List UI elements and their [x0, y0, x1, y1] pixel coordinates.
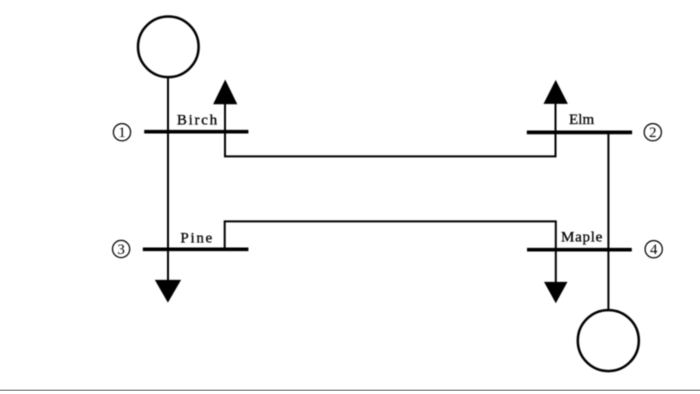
svg-text:Maple: Maple [561, 230, 603, 246]
load arrow at Maple [544, 250, 568, 304]
node 3 [113, 240, 130, 258]
node 2 [644, 124, 661, 142]
line Birch to Pine [167, 132, 169, 250]
wire Maple bus to G2 [607, 250, 609, 311]
wire G1 to Birch bus [167, 77, 169, 132]
injection arrow at Birch [213, 80, 237, 132]
svg-text:3: 3 [117, 242, 125, 258]
node 4 [645, 241, 662, 259]
svg-text:Birch: Birch [177, 113, 218, 129]
injection arrow at Elm [544, 80, 568, 132]
line Elm to Maple [607, 132, 609, 249]
bus Maple [527, 248, 632, 252]
svg-text:2: 2 [649, 125, 657, 141]
svg-text:Pine: Pine [180, 231, 212, 247]
load arrow at Pine [155, 249, 181, 302]
svg-text:1: 1 [118, 125, 126, 141]
svg-text:4: 4 [650, 242, 658, 258]
line Pine to Maple [225, 221, 556, 249]
bus Elm [527, 131, 632, 135]
line Birch to Elm [225, 132, 556, 157]
bus Birch [144, 130, 248, 134]
generator G1 [138, 17, 199, 78]
bottom rule [0, 389, 700, 391]
svg-text:Elm: Elm [569, 112, 595, 128]
generator G2 [578, 310, 639, 371]
node 1 [113, 124, 130, 142]
bus Pine [143, 247, 249, 251]
